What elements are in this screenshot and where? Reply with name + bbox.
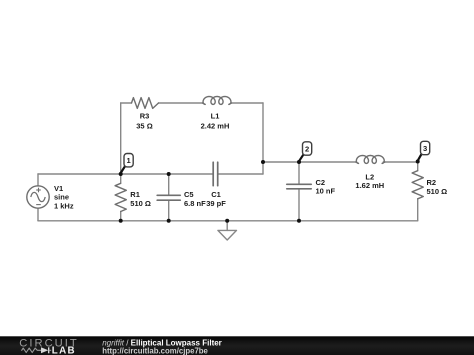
svg-text:10 nF: 10 nF <box>316 187 336 196</box>
inductor L1 <box>203 97 232 105</box>
svg-text:35 Ω: 35 Ω <box>136 122 152 131</box>
node 3 flag <box>418 153 422 161</box>
svg-text:C5: C5 <box>184 190 194 199</box>
node junction at node 3 <box>416 160 420 164</box>
node junction C5 top <box>167 172 171 176</box>
wire C2 top lead <box>298 162 300 184</box>
wire C5 top lead <box>168 174 170 195</box>
wire node2 row right <box>383 161 417 163</box>
svg-text:2.42 mH: 2.42 mH <box>201 122 230 131</box>
node junction at node 1 <box>119 172 123 176</box>
wire bottom rail <box>38 220 418 222</box>
voltage source V1 <box>27 186 49 208</box>
node junction ground <box>225 219 229 223</box>
svg-text:6.8 nF: 6.8 nF <box>184 199 206 208</box>
node junction C2 bottom <box>297 219 301 223</box>
svg-text:R3: R3 <box>140 112 150 121</box>
resistor R2 <box>412 171 423 199</box>
node 1 flag <box>121 165 126 173</box>
wire R2 bottom lead <box>417 199 419 221</box>
node junction C5 bottom <box>167 219 171 223</box>
wire top branch right horizontal <box>232 102 264 104</box>
svg-text:2: 2 <box>305 144 309 153</box>
svg-text:LAB: LAB <box>52 346 76 355</box>
resistor R3 <box>132 98 159 109</box>
capacitor C5 <box>157 194 180 196</box>
svg-text:http://circuitlab.com/cjpe7be: http://circuitlab.com/cjpe7be <box>102 346 208 355</box>
wire R1 top lead <box>120 174 122 183</box>
svg-text:39 pF: 39 pF <box>206 199 226 208</box>
wire main node1 row left <box>38 173 213 175</box>
wire C5 bottom lead <box>168 200 170 221</box>
wire node2 row left <box>263 161 356 163</box>
capacitor C2 <box>287 183 311 185</box>
wire main node1 row right of C1 <box>218 173 263 175</box>
wire top branch between R3 and L1 <box>159 102 203 104</box>
svg-text:C1: C1 <box>211 190 221 199</box>
ground <box>226 221 228 231</box>
svg-text:1 kHz: 1 kHz <box>54 202 74 211</box>
svg-text:L2: L2 <box>365 172 374 181</box>
CircuitLab logo resistor zigzag <box>22 348 41 352</box>
inductor L2 <box>356 156 385 164</box>
svg-text:1.62 mH: 1.62 mH <box>355 181 384 190</box>
wire top branch right vertical <box>262 103 264 174</box>
node junction R1 bottom <box>119 219 123 223</box>
wire R1 bottom lead <box>120 212 122 221</box>
wire vertical V1 top <box>37 174 39 186</box>
svg-text:R1: R1 <box>130 190 140 199</box>
svg-text:sine: sine <box>54 193 69 202</box>
svg-text:L1: L1 <box>211 112 220 121</box>
wire R2 top lead <box>417 162 419 171</box>
node junction top-branch tee <box>261 160 265 164</box>
svg-text:510 Ω: 510 Ω <box>427 187 448 196</box>
svg-text:3: 3 <box>423 144 427 153</box>
wire vertical V1 bottom <box>37 208 39 221</box>
resistor R1 <box>115 183 126 211</box>
node junction at node 2 <box>297 160 301 164</box>
CircuitLab logo diode arrow <box>41 347 48 353</box>
capacitor C1 <box>212 162 214 186</box>
svg-text:510 Ω: 510 Ω <box>130 199 151 208</box>
wire top branch left vertical <box>120 103 122 174</box>
svg-text:R2: R2 <box>427 178 437 187</box>
wire top branch left horizontal <box>121 102 132 104</box>
node 2 flag <box>299 154 304 162</box>
wire C2 bottom lead <box>298 189 300 221</box>
